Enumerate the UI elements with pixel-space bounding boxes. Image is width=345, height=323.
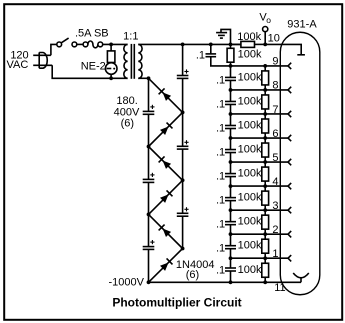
dynode electrode pin 5 bbox=[288, 159, 291, 162]
svg-text:100k: 100k bbox=[237, 31, 261, 43]
diode D4 1N4004 bbox=[149, 180, 183, 214]
svg-text:.1: .1 bbox=[216, 170, 225, 182]
svg-text:-1000V: -1000V bbox=[109, 276, 145, 288]
capacitor C5 180uF 400V bbox=[177, 145, 189, 147]
capacitor .1 bypass stage 1 bbox=[230, 258, 232, 268]
wire fuse to transformer primary bbox=[103, 43, 128, 45]
svg-text:.1: .1 bbox=[216, 74, 225, 86]
dynode electrode pin 1 bbox=[288, 255, 291, 258]
wire plug top to switch bbox=[51, 44, 57, 55]
svg-text:9: 9 bbox=[272, 56, 278, 68]
resistor 100k divider stage 8 bbox=[264, 90, 266, 95]
svg-text:.1: .1 bbox=[216, 219, 225, 231]
svg-text:100k: 100k bbox=[238, 71, 262, 83]
junction chain rail 1 bbox=[263, 256, 267, 260]
wire lamp to bottom rail bbox=[110, 74, 112, 78]
junction -1000V corner bbox=[147, 280, 151, 284]
junction chain rail 7 bbox=[263, 112, 267, 116]
plug P1 120VAC wall plug bbox=[33, 54, 51, 56]
svg-text:o: o bbox=[266, 15, 271, 25]
capacitor .1 bypass stage 4 bbox=[230, 186, 232, 198]
junction chain rail 3 bbox=[263, 208, 267, 212]
photocathode pin 11 electrode bbox=[300, 278, 302, 282]
svg-text:4: 4 bbox=[272, 176, 278, 188]
junction chain rail 6 bbox=[263, 136, 267, 140]
svg-text:.1: .1 bbox=[216, 243, 225, 255]
junction bus rail 4 bbox=[229, 184, 233, 188]
diode D5 1N4004 bbox=[149, 214, 183, 248]
wire top cap upper lead bbox=[210, 44, 212, 54]
capacitor .1 bypass stage 2 bbox=[230, 234, 232, 246]
junction bus rail 7 bbox=[229, 112, 233, 116]
svg-text:.1: .1 bbox=[216, 195, 225, 207]
capacitor C6 180uF 400V bbox=[177, 212, 189, 214]
wire switch to fuse bbox=[77, 43, 83, 45]
wire bus top segment bbox=[230, 44, 232, 48]
diode D6 1N4004 bbox=[149, 249, 183, 283]
svg-text:(6): (6) bbox=[121, 118, 134, 130]
svg-text:3: 3 bbox=[272, 200, 278, 212]
switch S1 bbox=[57, 42, 62, 47]
diode D3 1N4004 bbox=[149, 147, 183, 181]
svg-text:100k: 100k bbox=[238, 240, 262, 252]
resistor 100k divider stage 7 bbox=[264, 114, 266, 119]
svg-text:Photomultiplier Circuit: Photomultiplier Circuit bbox=[112, 296, 241, 310]
junction bus rail 9 bbox=[229, 64, 233, 68]
svg-text:.1: .1 bbox=[196, 49, 205, 61]
junction chain rail 5 bbox=[263, 160, 267, 164]
photomultiplier tube 931-A envelope bbox=[280, 32, 320, 295]
diode D1 1N4004 bbox=[149, 78, 183, 112]
junction bus bottom bbox=[229, 280, 233, 284]
wire dynode rail pin 2 bbox=[231, 233, 289, 235]
svg-text:100k: 100k bbox=[238, 168, 262, 180]
capacitor C1 180uF 400V bbox=[143, 110, 155, 112]
junction chain rail 4 bbox=[263, 184, 267, 188]
junction ground node bbox=[229, 43, 233, 47]
svg-text:.1: .1 bbox=[216, 98, 225, 110]
wire dynode rail pin 4 bbox=[231, 185, 289, 187]
capacitor .1 bypass stage 8 bbox=[230, 90, 232, 102]
svg-text:.5A SB: .5A SB bbox=[75, 27, 109, 39]
wire dynode rail pin 7 bbox=[231, 113, 289, 115]
resistor R load 100k bbox=[241, 41, 255, 47]
wire dynode rail pin 1 bbox=[231, 257, 289, 259]
dynode electrode pin 2 bbox=[288, 231, 291, 234]
wire multiplier left rail bbox=[148, 78, 150, 111]
svg-text:8: 8 bbox=[272, 80, 278, 92]
capacitor .1 bypass stage 7 bbox=[230, 114, 232, 126]
junction chain rail 8 bbox=[263, 88, 267, 92]
wire top rail secondary to resistor bbox=[138, 43, 241, 45]
ground bbox=[221, 29, 231, 44]
capacitor .1 bypass stage 3 bbox=[230, 210, 232, 222]
capacitor C2 180uF 400V bbox=[143, 178, 155, 180]
svg-text:931-A: 931-A bbox=[287, 19, 317, 31]
dynode electrode pin 3 bbox=[288, 207, 291, 210]
junction bus rail 8 bbox=[229, 88, 233, 92]
svg-text:100k: 100k bbox=[238, 48, 262, 60]
neon lamp NE-2 bbox=[105, 63, 117, 75]
junction chain bottom bbox=[263, 280, 267, 284]
svg-text:100k: 100k bbox=[238, 120, 262, 132]
svg-text:100k: 100k bbox=[238, 264, 262, 276]
diode D2 1N4004 bbox=[149, 112, 183, 146]
junction filter cap top bbox=[209, 43, 213, 47]
resistor 100k divider stage 9 bbox=[264, 66, 266, 71]
wire dynode rail pin 5 bbox=[231, 161, 289, 163]
resistor 100k divider stage 3 bbox=[264, 210, 266, 215]
resistor R1 100k ladder bbox=[227, 48, 234, 62]
svg-text:1: 1 bbox=[272, 248, 278, 260]
capacitor C4 180uF 400V bbox=[177, 75, 189, 77]
junction right rail node E bbox=[181, 178, 185, 182]
svg-text:2: 2 bbox=[272, 224, 278, 236]
wire multiplier right rail bbox=[182, 44, 184, 75]
resistor 100k divider stage 5 bbox=[264, 162, 266, 167]
junction bus rail 5 bbox=[229, 160, 233, 164]
junction right rail node F bbox=[181, 247, 185, 251]
wire dynode rail pin 8 bbox=[231, 89, 289, 91]
junction chain rail 2 bbox=[263, 232, 267, 236]
resistor 100k divider stage 6 bbox=[264, 138, 266, 143]
junction pin 10 node bbox=[263, 43, 267, 47]
junction right rail top bbox=[181, 43, 185, 47]
svg-text:11: 11 bbox=[274, 282, 285, 294]
junction right rail node D bbox=[181, 111, 185, 115]
svg-text:100k: 100k bbox=[238, 144, 262, 156]
svg-text:100k: 100k bbox=[238, 95, 262, 107]
capacitor .1 bypass stage 9 bbox=[230, 66, 232, 78]
dynode electrode pin 6 bbox=[288, 135, 291, 138]
wire dynode rail pin 9 bbox=[231, 65, 289, 67]
transformer T1 1:1 bbox=[124, 44, 128, 78]
svg-text:.1: .1 bbox=[216, 146, 225, 158]
capacitor C3 180uF 400V bbox=[143, 246, 155, 248]
svg-text:5: 5 bbox=[272, 152, 278, 164]
junction chain rail 9 bbox=[263, 64, 267, 68]
junction NE-2 bottom bbox=[109, 76, 113, 80]
wire secondary bottom bbox=[138, 77, 148, 79]
svg-text:1:1: 1:1 bbox=[123, 31, 138, 43]
capacitor .1 bypass stage 6 bbox=[230, 138, 232, 150]
wire -1000V cathode rail bbox=[149, 281, 302, 283]
resistor 100k divider stage 2 bbox=[264, 234, 266, 239]
dynode electrode pin 7 bbox=[288, 111, 291, 114]
resistor NE-2 ballast bbox=[107, 51, 115, 63]
junction left rail node C bbox=[147, 213, 151, 217]
wire dynode rail pin 6 bbox=[231, 137, 289, 139]
fuse F1 .5A SB bbox=[83, 42, 88, 47]
dynode electrode pin 8 bbox=[288, 87, 291, 90]
junction bus rail 1 bbox=[229, 256, 233, 260]
svg-text:(6): (6) bbox=[186, 269, 199, 281]
svg-text:100k: 100k bbox=[238, 192, 262, 204]
capacitor .1 filter bbox=[206, 53, 217, 55]
dynode electrode pin 9 bbox=[288, 63, 291, 66]
svg-text:VAC: VAC bbox=[6, 59, 28, 71]
wire junction to resistor bbox=[110, 44, 112, 51]
svg-text:10: 10 bbox=[268, 33, 280, 45]
resistor 100k divider stage 1 bbox=[264, 258, 266, 263]
wire rail to R load bbox=[231, 43, 241, 45]
wire top cap lower lead bbox=[211, 57, 231, 66]
dynode electrode pin 4 bbox=[288, 183, 291, 186]
junction bus rail 6 bbox=[229, 136, 233, 140]
wire dynode rail pin 3 bbox=[231, 209, 289, 211]
capacitor .1 bypass stage 5 bbox=[230, 162, 232, 174]
svg-text:6: 6 bbox=[272, 128, 278, 140]
junction NE-2 top bbox=[109, 43, 113, 47]
wire plug bottom rail bbox=[52, 65, 127, 78]
svg-text:.1: .1 bbox=[216, 122, 225, 134]
wire R load to pin10 node bbox=[255, 43, 266, 45]
svg-text:180.: 180. bbox=[116, 95, 137, 107]
anode pin 10 electrode bbox=[265, 44, 301, 54]
resistor 100k divider stage 4 bbox=[264, 186, 266, 191]
terminal Vo bbox=[264, 32, 266, 45]
svg-text:100k: 100k bbox=[238, 216, 262, 228]
svg-text:NE-2: NE-2 bbox=[81, 60, 106, 72]
junction bus rail 2 bbox=[229, 232, 233, 236]
junction node A transformer secondary bottom bbox=[147, 76, 151, 80]
junction left rail node B bbox=[147, 145, 151, 149]
junction bus rail 3 bbox=[229, 208, 233, 212]
svg-text:7: 7 bbox=[272, 104, 278, 116]
svg-text:400V: 400V bbox=[114, 106, 140, 118]
svg-text:.1: .1 bbox=[216, 265, 225, 277]
wire bus R1 to rail9 bbox=[230, 62, 232, 66]
